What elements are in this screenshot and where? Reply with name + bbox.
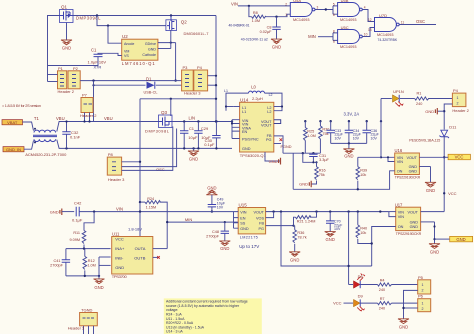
svg-text:P4: P4 [453, 88, 459, 93]
wire: P4 pin2 to gnd and D11 [437, 104, 452, 130]
svg-text:GND: GND [399, 325, 408, 330]
svg-text:P4: P4 [197, 65, 203, 70]
ground below R36 [289, 252, 300, 263]
wire: branch to U11 supply [140, 98, 217, 100]
comparator U11 TPS3700 [112, 226, 153, 278]
wire: VIN rail to U15 [93, 210, 234, 212]
transistor Q2 [166, 16, 209, 37]
svg-text:R4: R4 [380, 279, 385, 283]
wire: Q2 source down to header rail [158, 30, 177, 82]
wire: INB- node [99, 257, 111, 276]
svg-text:C1: C1 [91, 48, 97, 53]
svg-text:U14 - 3 uA: U14 - 3 uA [166, 330, 183, 334]
wire: R7 to P6 [392, 302, 418, 304]
wire: vbus drop to VBU rail [93, 81, 95, 122]
wire: R4 to P5 [392, 284, 418, 286]
svg-text:ON: ON [398, 225, 404, 229]
svg-text:40-0469RK-01: 40-0469RK-01 [229, 24, 250, 28]
wire: L0 to U14 L2 [265, 93, 284, 111]
ground port PGND under U14 [265, 152, 281, 165]
svg-text:240: 240 [416, 102, 422, 106]
svg-text:Cathode: Cathode [142, 53, 156, 57]
svg-text:P6: P6 [418, 294, 424, 299]
svg-text:Header 2: Header 2 [58, 89, 75, 94]
svg-text:1: 1 [422, 283, 424, 287]
svg-text:DMG6601L-7: DMG6601L-7 [184, 31, 210, 36]
wire: cap gnd link [331, 142, 367, 144]
svg-text:1.0M: 1.0M [307, 134, 315, 138]
svg-text:VIN: VIN [398, 215, 405, 219]
svg-text:VCC: VCC [115, 237, 124, 242]
resistor R40 [356, 212, 372, 244]
svg-text:VIN: VIN [397, 160, 404, 164]
wire: U17 VOUT to VCC [421, 211, 445, 213]
svg-text:GND: GND [425, 109, 434, 114]
svg-text:3: 3 [317, 5, 319, 9]
resistor R24 [139, 197, 167, 249]
capacitor C49 [208, 195, 226, 213]
connector P4 [452, 88, 469, 113]
op-amp U2 LM74610-Q1 [122, 34, 158, 66]
resistor R21 [294, 212, 317, 226]
svg-text:GND: GND [426, 188, 435, 193]
no-erc at PG [280, 138, 283, 141]
svg-text:VIN: VIN [231, 2, 238, 7]
svg-text:Q1: Q1 [61, 5, 68, 10]
junction [96, 14, 98, 16]
svg-text:2: 2 [422, 307, 424, 311]
wire: vcc rail feed to leds [281, 212, 372, 285]
svg-text:0.1nF: 0.1nF [70, 135, 81, 140]
svg-text:Header 3: Header 3 [68, 325, 85, 330]
connector P8 [107, 152, 125, 182]
wire: LIN rail after Q3 [172, 120, 233, 122]
svg-text:VOUT: VOUT [261, 124, 272, 128]
svg-text:MC14093: MC14093 [377, 33, 393, 37]
wire: 3.3V drop to U16 [380, 121, 395, 161]
wire: U16 VIN feed across [358, 156, 381, 158]
svg-text:5: 5 [333, 2, 335, 6]
nand gate U7D [368, 13, 404, 42]
svg-text:10k: 10k [360, 231, 366, 235]
connector TGND [68, 308, 98, 334]
svg-text:= 1.8-5.5 6V for 2S version: = 1.8-5.5 6V for 2S version [2, 104, 41, 108]
ground port left of C42 [50, 209, 62, 216]
svg-text:U5A: U5A [293, 0, 301, 3]
svg-text:GND: GND [115, 265, 124, 270]
svg-text:R30: R30 [322, 128, 329, 132]
wire: U17 GND pins [421, 222, 436, 244]
wire: OUTA to MIN [153, 248, 167, 250]
svg-text:LM22175: LM22175 [240, 236, 258, 240]
svg-text:R7: R7 [380, 297, 385, 301]
svg-text:R21 1.24M: R21 1.24M [297, 220, 316, 224]
wire: U5B out to U7D [362, 10, 374, 22]
svg-text:PS/SYNC: PS/SYNC [242, 138, 259, 142]
diode D11 zener [409, 124, 457, 142]
svg-text:C29: C29 [201, 126, 209, 131]
svg-text:OSC: OSC [416, 19, 425, 24]
svg-text:T1: T1 [34, 116, 40, 121]
resistor R39 [356, 157, 367, 189]
svg-text:U14: U14 [240, 97, 249, 102]
svg-text:6: 6 [333, 13, 335, 17]
svg-text:L0: L0 [251, 85, 256, 90]
svg-text:VCC: VCC [333, 301, 342, 306]
wire: led to R1 [400, 98, 415, 100]
svg-text:75k: 75k [319, 173, 325, 177]
svg-text:OSC: OSC [156, 167, 165, 172]
svg-text:10k: 10k [360, 173, 366, 177]
wire: P1 pins from left rail [48, 75, 58, 82]
wire: VOUT rail 3.3V [274, 120, 382, 124]
svg-text:Q2: Q2 [181, 19, 188, 24]
svg-text:R39: R39 [360, 169, 367, 173]
net label GND (port) [435, 236, 473, 241]
svg-text:GND: GND [50, 209, 59, 214]
svg-text:GND: GND [148, 48, 156, 52]
svg-text:MC14093: MC14093 [340, 18, 356, 22]
svg-text:0.1µF: 0.1µF [72, 217, 83, 222]
svg-text:2700pF: 2700pF [50, 263, 64, 267]
svg-text:C1: C1 [189, 126, 195, 131]
resistor R8 [249, 6, 290, 23]
svg-text:MIN: MIN [185, 217, 192, 222]
svg-text:2700pF: 2700pF [206, 235, 220, 239]
svg-text:10V: 10V [217, 206, 224, 210]
svg-text:U2: U2 [122, 34, 128, 39]
svg-text:MC14093: MC14093 [340, 45, 356, 49]
svg-text:2: 2 [457, 102, 459, 106]
svg-text:VCC: VCC [455, 155, 464, 160]
inductor T1 [25, 116, 67, 157]
wire: D9 to R7 [360, 302, 377, 304]
svg-text:U5C: U5C [341, 25, 349, 30]
wire: VBAT to T1 [23, 122, 34, 131]
svg-text:R24: R24 [147, 197, 154, 201]
svg-text:8: 8 [333, 29, 335, 33]
wire: GND_IN to T1 [24, 141, 34, 150]
wire: U16 VOUT to VCC [419, 156, 444, 158]
wire: U5C out to U7D [362, 28, 374, 37]
svg-text:10V: 10V [353, 136, 360, 140]
switch U17 TPS22919 [395, 202, 422, 236]
svg-text:2: 2 [422, 289, 424, 293]
svg-text:P2: P2 [73, 66, 79, 71]
ground port left at P4 [425, 108, 437, 114]
svg-text:Anode: Anode [124, 42, 134, 46]
svg-text:GND: GND [409, 169, 418, 173]
svg-text:12: 12 [368, 18, 372, 22]
svg-text:VBAT: VBAT [7, 120, 18, 125]
svg-text:VOUT: VOUT [406, 156, 417, 160]
svg-text:GND: GND [430, 250, 439, 255]
wire: Q1 drain to Q2 [73, 14, 216, 19]
svg-text:D11: D11 [449, 124, 457, 129]
wire: U17 ON enable [371, 227, 396, 267]
svg-text:L1: L1 [242, 110, 246, 114]
svg-text:LM74610-Q1: LM74610-Q1 [122, 61, 156, 66]
svg-text:R16: R16 [319, 169, 326, 173]
svg-text:OUTA: OUTA [135, 246, 146, 251]
connector P3 [182, 65, 194, 91]
svg-text:VBU: VBU [104, 116, 113, 121]
svg-text:10V: 10V [335, 136, 342, 140]
wire: U5A out to U5B [315, 6, 338, 14]
svg-text:74-320TRBK: 74-320TRBK [378, 38, 398, 42]
svg-text:10V: 10V [371, 136, 378, 140]
svg-text:GND: GND [299, 182, 308, 187]
wire: P8 pin1 to VCC drop [122, 161, 142, 163]
led D8 [349, 273, 366, 288]
wire: U14 VIN tie [231, 120, 240, 139]
wire: GDrive to Q2 gate [158, 42, 176, 44]
svg-text:VS: VS [124, 54, 129, 58]
net label GND_IN [3, 147, 24, 152]
svg-text:1: 1 [457, 96, 459, 100]
svg-text:FB: FB [259, 222, 264, 226]
svg-text:R8: R8 [253, 11, 258, 15]
svg-text:X7R: X7R [94, 65, 102, 70]
junctions on bottom rail [65, 147, 217, 149]
svg-text:UP1N: UP1N [393, 89, 404, 94]
svg-text:TPS63020-Q1: TPS63020-Q1 [240, 153, 267, 158]
svg-text:L1: L1 [224, 89, 228, 93]
svg-text:TPS22919DCKR: TPS22919DCKR [396, 232, 422, 236]
svg-text:1.0M: 1.0M [252, 19, 260, 23]
diode D1 [144, 76, 158, 94]
svg-text:USB-CL: USB-CL [144, 91, 158, 95]
svg-text:L2: L2 [267, 110, 271, 114]
svg-text:C42: C42 [74, 201, 82, 206]
wire: comp lower link [303, 153, 318, 163]
resistor R7 [378, 297, 392, 310]
no-erc at OUTB [153, 256, 160, 259]
svg-text:GND: GND [290, 257, 299, 262]
svg-text:10V: 10V [334, 227, 341, 231]
svg-text:TGND: TGND [81, 308, 92, 313]
svg-text:EN: EN [240, 216, 246, 220]
svg-text:L2: L2 [269, 93, 273, 97]
svg-text:VOS: VOS [256, 216, 264, 220]
net label VCC (port) [444, 154, 470, 159]
svg-text:P1: P1 [58, 66, 64, 71]
nand gate U5A [285, 0, 318, 22]
wire: Q3 drain drop [170, 99, 172, 116]
svg-text:C48: C48 [212, 230, 219, 234]
svg-text:D1: D1 [146, 76, 152, 81]
svg-text:INB-: INB- [115, 256, 124, 261]
connector P7 [80, 93, 97, 123]
svg-text:GND: GND [240, 227, 249, 231]
connector P2 [58, 66, 81, 94]
svg-text:Header 3: Header 3 [184, 91, 201, 96]
resistor R12 [83, 249, 96, 276]
svg-text:C41: C41 [54, 259, 61, 263]
capacitor C36 [363, 121, 380, 143]
svg-text:11: 11 [401, 20, 405, 24]
ground below P6 [398, 319, 409, 330]
svg-text:3.3µF: 3.3µF [319, 158, 329, 162]
wire: U17 VIN tie [389, 212, 396, 217]
svg-text:GND: GND [326, 237, 335, 242]
capacitor C41 [50, 249, 70, 276]
ground below C48 [219, 241, 230, 251]
wire: T1 to VBU rail [57, 122, 159, 132]
wire: long vertical to U11 VCC [139, 99, 141, 237]
svg-text:1: 1 [422, 301, 424, 305]
wire: MIN to U5C [318, 33, 338, 41]
svg-text:GND: GND [344, 154, 353, 159]
wire: VIN to U5A [238, 5, 290, 7]
wire: U15 FB [266, 225, 295, 227]
svg-text:EN: EN [242, 130, 248, 134]
svg-text:3.3V, 2A: 3.3V, 2A [344, 112, 360, 117]
ground below U11 [94, 276, 105, 290]
ground below C70 [325, 232, 336, 243]
capacitor C32 [62, 120, 80, 148]
regulator U15 [238, 203, 265, 250]
led D9 [344, 293, 366, 311]
capacitor C33 [327, 121, 344, 143]
wire: left loop to Q1 and P1 [48, 16, 61, 82]
svg-text:Header 2: Header 2 [80, 113, 97, 118]
svg-text:D8: D8 [358, 274, 364, 279]
resistor R4 [378, 279, 392, 292]
switch U16 TPS22919 [395, 148, 421, 180]
connector P6 [418, 294, 431, 312]
wire: D8 to R4 [360, 284, 377, 286]
wire: U16 ON enable [293, 153, 395, 190]
ground below U17 [429, 244, 440, 255]
wire: MIN net [166, 217, 238, 224]
wire: T1 to bottom rail [57, 140, 232, 149]
ground below mid rail [188, 148, 199, 161]
ground below C8 [271, 39, 282, 49]
svg-text:1.0M: 1.0M [87, 263, 95, 267]
resistor R1 [415, 92, 429, 106]
svg-text:DMP3098L: DMP3098L [145, 129, 170, 134]
svg-text:LIN: LIN [189, 116, 196, 121]
wire: VCC vertical [443, 137, 457, 212]
svg-text:VOUT: VOUT [407, 210, 418, 214]
svg-text:Q3: Q3 [161, 110, 168, 115]
svg-text:GND: GND [269, 159, 278, 164]
svg-text:GND: GND [456, 237, 465, 242]
svg-text:R36: R36 [297, 231, 304, 235]
svg-text:INA+: INA+ [115, 246, 125, 251]
ground below U16 [425, 182, 436, 193]
svg-text:VOUT: VOUT [253, 210, 264, 214]
net label VBAT [2, 120, 23, 125]
capacitor C8 [260, 17, 281, 39]
svg-text:P7: P7 [82, 93, 88, 98]
svg-text:P5: P5 [418, 275, 424, 280]
svg-text:9: 9 [333, 40, 335, 44]
svg-text:MIN: MIN [308, 34, 316, 39]
svg-text:PESD5V0L1BA,115: PESD5V0L1BA,115 [409, 139, 440, 143]
svg-text:PG: PG [266, 138, 272, 142]
wire: U15 input tie [234, 212, 239, 229]
resistor R36 [293, 226, 307, 252]
svg-text:GND: GND [242, 147, 251, 151]
svg-text:GND: GND [189, 156, 198, 161]
capacitor C29 [194, 122, 211, 149]
wire: R1 to P4 [428, 98, 452, 100]
svg-text:GND: GND [410, 221, 419, 225]
svg-text:VIN: VIN [116, 206, 123, 211]
svg-text:R1: R1 [417, 92, 422, 96]
svg-text:P3: P3 [183, 65, 189, 70]
capacitor C30 [204, 122, 220, 149]
capacitor C42 [62, 201, 140, 223]
svg-text:Header 2: Header 2 [452, 108, 469, 113]
capacitor C31 [309, 153, 329, 162]
svg-text:GND: GND [62, 45, 71, 50]
svg-text:PGND: PGND [281, 145, 292, 149]
svg-text:Up to 17V: Up to 17V [239, 244, 259, 249]
svg-text:2: 2 [285, 2, 287, 6]
wire: P4a to U14 input drop [208, 16, 218, 122]
svg-text:9.09M: 9.09M [69, 238, 80, 242]
wire: U14 L1 tie to L0 [224, 89, 249, 111]
nand gate U5B [333, 0, 366, 22]
svg-text:78.7k: 78.7k [297, 236, 306, 240]
svg-text:GND: GND [94, 285, 103, 290]
wire: OSC output [399, 19, 436, 24]
svg-text:GDrive: GDrive [145, 42, 156, 46]
svg-text:VCC: VCC [448, 191, 457, 196]
wire: Q1 gate to gnd [66, 23, 68, 41]
svg-text:ON: ON [397, 169, 403, 173]
svg-text:C8: C8 [267, 25, 272, 29]
svg-text:10: 10 [364, 32, 368, 36]
led UP1N [381, 89, 404, 121]
svg-text:240: 240 [379, 288, 385, 292]
svg-text:40-0210RK-11 a2: 40-0210RK-11 a2 [241, 37, 268, 41]
svg-text:TPS22919DCKR: TPS22919DCKR [395, 176, 421, 180]
svg-text:SS: SS [240, 222, 246, 226]
svg-text:R40: R40 [360, 227, 367, 231]
svg-text:U17: U17 [395, 202, 403, 207]
svg-text:TPS3700: TPS3700 [112, 274, 128, 279]
wire: FB comp node [274, 136, 321, 155]
svg-text:Header 3: Header 3 [108, 177, 125, 182]
transistor Q3 [145, 110, 172, 134]
svg-text:R11: R11 [73, 231, 80, 235]
wire: U15 VOUT rail [266, 210, 389, 212]
connector P5 [418, 275, 431, 294]
wire: INA+ node [66, 247, 111, 249]
wire: P5 P6 pin2 to gnd [402, 290, 417, 318]
svg-text:240: 240 [379, 306, 385, 310]
regulator U14 TPS63020-Q1 [240, 97, 274, 158]
ground port left of R16 [299, 181, 311, 187]
capacitor C1b [180, 122, 198, 149]
svg-text:PG: PG [259, 227, 265, 231]
ground below output caps [343, 143, 354, 158]
resistor R25 [303, 121, 315, 153]
svg-text:VIN: VIN [398, 210, 405, 214]
svg-text:U7D: U7D [379, 13, 387, 18]
wire: anode feed from Q1 net [97, 16, 166, 44]
svg-text:1.15M: 1.15M [146, 206, 157, 210]
svg-text:GND: GND [272, 44, 281, 49]
wire: P8 pin3 [122, 127, 173, 171]
resistor R16 [311, 162, 325, 184]
svg-text:4: 4 [364, 5, 366, 9]
capacitor C70 [326, 212, 343, 232]
